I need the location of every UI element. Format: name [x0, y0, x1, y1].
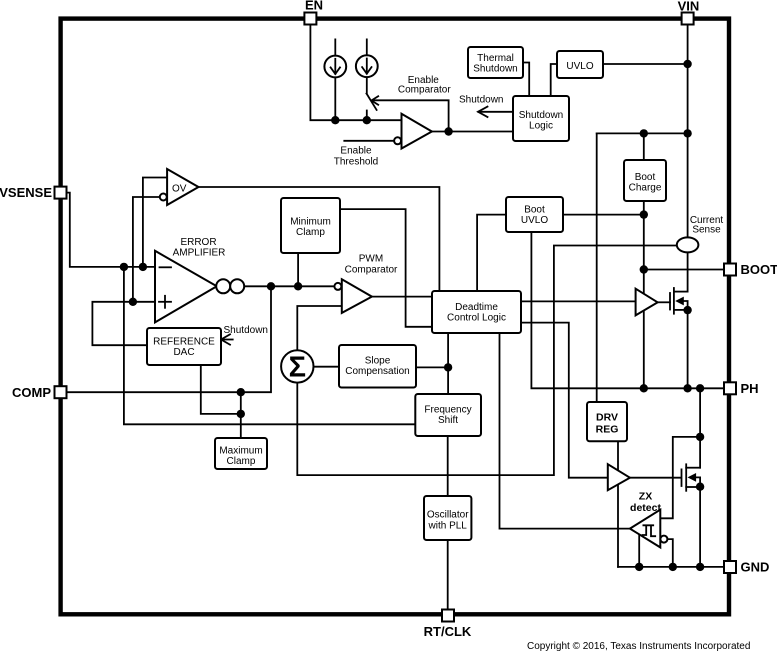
box Boot UVLO: [506, 197, 563, 232]
arrowhead shutdown: [478, 107, 488, 117]
transistor HS FET channel bar: [673, 288, 675, 314]
pin VIN: [682, 13, 694, 25]
Shutdown arrow out of Shutdown Logic: [479, 111, 514, 113]
svg-text:Sense: Sense: [692, 224, 721, 235]
Shutdown arrow into REFERENCE DAC: [222, 339, 233, 341]
bubble PWM inverting input: [334, 283, 341, 290]
wire Boot Charge bottom down to PH node (behind HS driver): [643, 201, 645, 388]
current source I1: [324, 56, 346, 78]
transistor HS FET body arrow: [675, 297, 684, 306]
pin RT/CLK: [442, 610, 454, 622]
svg-text:with PLL: with PLL: [428, 520, 468, 531]
box Boot Charge: [624, 160, 666, 201]
node HS FET source: [683, 306, 691, 314]
wire current source I1 stem top: [334, 39, 336, 55]
node OV input: [139, 263, 147, 271]
svg-text:Shutdown: Shutdown: [224, 325, 268, 336]
svg-text:Shift: Shift: [438, 415, 458, 426]
transistor HS FET source stub: [674, 309, 688, 311]
box Thermal Shutdown: [468, 47, 523, 78]
svg-text:VIN: VIN: [678, 0, 700, 14]
svg-text:Comparator: Comparator: [345, 265, 398, 276]
summing node sigma: [281, 350, 313, 382]
transistor LS FET body tie: [696, 477, 700, 487]
pin BOOT: [724, 264, 736, 276]
node DAC/max clamp: [237, 410, 245, 418]
node ZX sense: [696, 433, 704, 441]
node slope comp output: [444, 363, 452, 371]
node boot charge top: [640, 129, 648, 137]
wire error amplifier output: [244, 285, 334, 287]
WIRES-MID: [66, 178, 677, 610]
svg-text:UVLO: UVLO: [521, 215, 548, 226]
wire Boot UVLO left to Deadtime top: [477, 215, 506, 291]
svg-text:PH: PH: [741, 381, 759, 396]
transistor HS FET drain stub: [674, 291, 688, 293]
box Slope Compensation: [339, 345, 416, 388]
svg-text:ZX: ZX: [639, 491, 652, 503]
op-amp OV comparator: [167, 169, 198, 205]
node boot charge bottom: [640, 210, 648, 218]
wire HS FET source down to PH rail: [687, 310, 689, 388]
svg-text:Deadtime: Deadtime: [455, 302, 498, 313]
svg-text:Threshold: Threshold: [334, 157, 378, 168]
node GND ZX: [635, 563, 643, 571]
ZX detect pulse glyph: [643, 525, 656, 536]
node COMP/max clamp: [237, 388, 245, 396]
wire HS driver to HS FET gate: [658, 301, 670, 303]
wire Slope Compensation output: [416, 366, 448, 368]
svg-text:Σ: Σ: [289, 352, 306, 384]
wire COMP pin to error amp output: [66, 286, 271, 392]
current sense ellipse: [677, 237, 699, 252]
wire Maximum Clamp top: [240, 392, 242, 438]
bubble enable comparator inverting input: [394, 137, 401, 144]
op-amp enable comparator: [402, 114, 432, 149]
wire VSENSE branch to Frequency Shift: [124, 267, 415, 424]
wire sigma bottom to current sense loop: [297, 246, 677, 476]
svg-text:Boot: Boot: [635, 172, 656, 183]
wire OV comparator upper input: [143, 178, 167, 267]
node EN/I1: [331, 116, 339, 124]
gm output circle 1: [216, 279, 230, 293]
wire Oscillator bottom to RT/CLK pin: [447, 540, 449, 610]
svg-text:PWM: PWM: [359, 254, 383, 265]
wire sigma to Slope Compensation: [314, 366, 340, 368]
op-amp PWM comparator: [342, 279, 372, 313]
wire Thermal Shutdown to Shutdown Logic: [523, 63, 529, 97]
WIRES-RIGHT: [477, 25, 724, 567]
node BOOT: [640, 265, 648, 273]
transistor HS FET body tie: [684, 301, 688, 310]
wire reference DAC to error amp + input: [92, 302, 155, 345]
WIRES-TOP: [310, 25, 687, 141]
wire VIN top rail to x596: [597, 132, 688, 134]
wire OV output to Deadtime Control Logic top: [199, 187, 440, 291]
svg-text:AMPLIFIER: AMPLIFIER: [173, 247, 226, 258]
svg-text:BOOT: BOOT: [741, 262, 777, 277]
wire ZX detect ground stub: [638, 534, 640, 567]
node GND LS source: [696, 563, 704, 571]
wire UVLO right to VIN line: [603, 63, 688, 65]
pin EN: [304, 13, 316, 25]
box DRV REG: [587, 402, 627, 441]
wire EN pin down: [310, 25, 401, 121]
node VSENSE branch: [120, 263, 128, 271]
svg-text:VSENSE: VSENSE: [0, 185, 52, 200]
svg-text:Shutdown: Shutdown: [519, 110, 563, 121]
node EN/I2: [363, 116, 371, 124]
box Deadtime Control Logic: [432, 291, 521, 333]
wire PWM comparator output to Deadtime Control Logic: [372, 296, 432, 298]
wire PH rail to PH pin: [644, 387, 725, 389]
wire enable comparator output to Shutdown Logic: [432, 131, 513, 133]
pin GND: [724, 561, 736, 573]
svg-text:ERROR: ERROR: [180, 237, 216, 248]
transistor LS FET gate bar: [681, 469, 683, 486]
bubble ZX detect input: [660, 536, 667, 543]
svg-text:UVLO: UVLO: [566, 61, 593, 72]
svg-text:Control Logic: Control Logic: [447, 313, 506, 324]
svg-text:DAC: DAC: [173, 347, 194, 358]
node VIN/UVLO: [683, 60, 691, 68]
svg-text:Charge: Charge: [629, 183, 662, 194]
switch S1 lower stub: [366, 111, 368, 121]
wire LS driver to LS FET gate: [630, 477, 681, 479]
error amp plus sign: [159, 301, 171, 303]
arrowhead shutdown DAC: [221, 334, 230, 344]
wire Deadtime bottom-right to ZX detect output: [500, 333, 630, 529]
op-amp low-side driver: [608, 464, 630, 490]
op-amp error amplifier: [155, 251, 217, 323]
box Minimum Clamp: [281, 198, 340, 253]
svg-text:Maximum: Maximum: [219, 446, 262, 457]
wire PH down to LS FET drain: [699, 388, 701, 467]
wire Boot UVLO right to boot node: [563, 214, 644, 216]
wire UVLO left to Shutdown Logic: [551, 64, 557, 96]
svg-text:GND: GND: [741, 560, 770, 575]
node enable comparator output: [444, 127, 452, 135]
wire PWM comparator lower input from sigma: [297, 306, 342, 350]
wire current source I2 stem top: [366, 39, 368, 55]
wire Boot UVLO bottom to PH rail: [531, 232, 643, 388]
wire VSENSE pin to error amp inverting input: [66, 193, 155, 267]
svg-text:detect: detect: [630, 502, 661, 514]
box Frequency Shift: [415, 394, 481, 436]
op-amp high-side driver: [636, 289, 658, 316]
wire REFERENCE DAC bottom: [201, 365, 241, 414]
node GND ZX bubble: [669, 563, 677, 571]
switch S1 blade: [367, 94, 377, 110]
transistor LS FET channel bar: [685, 464, 687, 491]
arrowhead switch control: [371, 96, 378, 105]
comparator ZX detect: [630, 510, 660, 548]
wire x596 down to DRV REG: [596, 133, 598, 402]
svg-text:Compensation: Compensation: [345, 366, 409, 377]
wire Deadtime right-low to low-side driver input: [521, 323, 608, 478]
node min clamp output: [294, 282, 302, 290]
svg-text:REG: REG: [596, 424, 619, 436]
wire Deadtime bottom-left to Frequency Shift top: [447, 333, 449, 394]
svg-text:OV: OV: [172, 184, 187, 195]
gm output circle 2: [230, 279, 244, 293]
wire enable comparator lower input (Enable Threshold): [344, 140, 394, 142]
wire DRV REG bottom down to GND rail (behind LS driver): [617, 441, 619, 567]
box UVLO: [557, 51, 603, 78]
node PH boot line: [640, 384, 648, 392]
bubble OV inverting input: [160, 194, 167, 201]
wire ZX detect upper input from PH node: [660, 437, 700, 518]
wire Boot Charge top: [643, 133, 645, 160]
box REFERENCE DAC: [147, 328, 221, 365]
node COMP/error amp output: [267, 282, 275, 290]
transistor LS FET body arrow: [688, 473, 697, 482]
wire switch control from enable comparator output: [373, 100, 449, 131]
svg-text:Minimum: Minimum: [290, 217, 331, 228]
pin COMP: [55, 386, 67, 398]
wire BOOT node to BOOT pin: [644, 269, 725, 271]
pin VSENSE: [55, 187, 67, 199]
wire current source I2 stem bottom: [366, 77, 368, 93]
wire Minimum Clamp bottom: [297, 253, 299, 286]
wire current source I1 stem bottom: [334, 77, 336, 120]
node HS source PH: [683, 384, 691, 392]
wire Minimum Clamp right to Deadtime Control Logic left: [340, 209, 432, 327]
transistor HS FET gate bar: [669, 293, 671, 310]
wire LS FET source down to GND rail: [699, 487, 701, 567]
svg-text:Enable: Enable: [340, 146, 372, 157]
transistor LS FET source stub: [686, 486, 700, 488]
svg-text:DRV: DRV: [596, 412, 618, 424]
svg-text:Oscillator: Oscillator: [427, 510, 469, 521]
box Shutdown Logic: [513, 96, 569, 141]
svg-text:Clamp: Clamp: [296, 227, 325, 238]
svg-text:EN: EN: [305, 0, 323, 13]
node LS drain PH: [696, 384, 704, 392]
svg-text:Copyright © 2016, Texas Instru: Copyright © 2016, Texas Instruments Inco…: [527, 641, 750, 652]
node VIN top rail: [683, 129, 691, 137]
wire VIN below current sense to high-side FET drain: [687, 252, 689, 291]
wire ZX detect bubble input to GND rail: [667, 539, 672, 567]
svg-text:COMP: COMP: [12, 385, 51, 400]
svg-text:Comparator: Comparator: [398, 85, 451, 96]
error amp minus sign: [160, 266, 172, 268]
wire Deadtime right to high-side driver input: [521, 300, 636, 302]
svg-text:Shutdown: Shutdown: [473, 63, 517, 74]
svg-text:Logic: Logic: [529, 121, 553, 132]
MAIN-BORDER: [61, 19, 729, 615]
transistor LS FET drain stub: [686, 467, 700, 469]
pin PH: [724, 382, 736, 394]
current source I2: [356, 55, 378, 77]
svg-text:Shutdown: Shutdown: [459, 95, 503, 106]
wire OV comparator lower input to reference node: [133, 197, 160, 302]
svg-text:Boot: Boot: [524, 205, 545, 216]
svg-text:RT/CLK: RT/CLK: [424, 624, 472, 639]
node LS FET source: [696, 483, 704, 491]
box Oscillator with PLL: [424, 496, 471, 540]
wire GND rail to GND pin: [618, 566, 725, 568]
node reference: [129, 298, 137, 306]
svg-text:Clamp: Clamp: [227, 456, 256, 467]
wire Frequency Shift bottom to Oscillator: [447, 436, 449, 496]
box Maximum Clamp: [215, 438, 267, 469]
wire VIN pin down to current sense: [687, 25, 689, 238]
